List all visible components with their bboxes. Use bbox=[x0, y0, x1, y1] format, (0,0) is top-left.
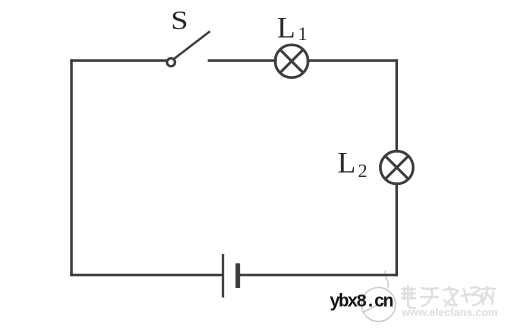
svg-text:L1: L1 bbox=[277, 11, 307, 45]
svg-text:L2: L2 bbox=[338, 147, 368, 183]
svg-text:www.elecfans.com: www.elecfans.com bbox=[401, 307, 498, 319]
svg-text:S: S bbox=[171, 6, 188, 35]
svg-text:ybx8.cn: ybx8.cn bbox=[330, 293, 393, 313]
